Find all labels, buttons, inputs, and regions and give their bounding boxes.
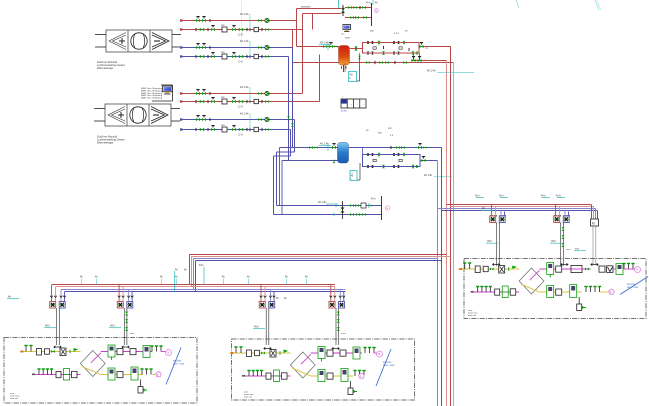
svg-text:xxxx xxx: xxxx xxx (244, 397, 253, 399)
svg-text:M: M (378, 353, 380, 356)
svg-text:40 b: 40 b (45, 324, 51, 328)
svg-text:40 1.4b: 40 1.4b (424, 174, 433, 177)
svg-text:xxxx - xxxx: xxxx - xxxx (173, 364, 185, 366)
svg-text:40 1.4b: 40 1.4b (240, 113, 249, 116)
svg-text:40 b: 40 b (366, 3, 371, 5)
svg-text:x x x: x x x (394, 32, 400, 35)
svg-text:40 b: 40 b (254, 325, 260, 329)
svg-text:C--K: C--K (238, 33, 243, 36)
svg-text:-: - (351, 102, 352, 106)
svg-text:Warmeterugw.: Warmeterugw. (97, 141, 114, 145)
svg-text:40 b: 40 b (475, 195, 480, 198)
svg-text:xx xx: xx xx (341, 110, 347, 113)
svg-text:-: - (357, 102, 358, 106)
svg-text:xxxx - xxxx: xxxx - xxxx (627, 287, 639, 289)
svg-text:M: M (636, 269, 638, 272)
svg-text:40 b: 40 b (487, 239, 493, 243)
svg-text:40 b: 40 b (541, 195, 546, 198)
svg-text:MSR: Vers. Regelung: MSR: Vers. Regelung (141, 97, 163, 100)
svg-text:40 b: 40 b (551, 239, 557, 243)
svg-text:L.: L. (351, 178, 353, 181)
svg-text:Warmeterugw.: Warmeterugw. (97, 66, 114, 70)
svg-text:-: - (363, 102, 364, 106)
svg-text:M: M (167, 352, 169, 355)
svg-text:40 1.4b: 40 1.4b (318, 201, 327, 204)
svg-text:40 b: 40 b (499, 195, 504, 198)
svg-text:xxxx xxx: xxxx xxx (10, 398, 19, 400)
svg-text:C--K: C--K (238, 105, 243, 108)
svg-text:40 b: 40 b (199, 264, 204, 267)
svg-text:L.: L. (350, 76, 352, 80)
svg-text:40 1.4b: 40 1.4b (427, 70, 436, 73)
svg-text:xxxx - xxxx: xxxx - xxxx (383, 365, 395, 367)
svg-text:M: M (386, 208, 388, 210)
svg-text:C--K: C--K (238, 133, 243, 136)
svg-text:C--K: C--K (238, 60, 243, 63)
svg-text:xxxx xxx: xxxx xxx (468, 315, 477, 317)
svg-text:40 1.4b: 40 1.4b (240, 86, 249, 89)
svg-text:xxxxxxx: xxxxxxx (173, 361, 182, 363)
svg-text:40 b: 40 b (110, 324, 116, 328)
svg-text:xxxxxxxx: xxxxxxxx (301, 6, 311, 9)
svg-text:xxxxxxx: xxxxxxx (627, 284, 636, 286)
svg-text:xxxx: xxxx (345, 37, 351, 40)
svg-text:M: M (592, 222, 595, 226)
svg-text:40 b: 40 b (556, 195, 561, 198)
svg-text:xxxxxxx: xxxxxxx (383, 362, 392, 364)
svg-text:40 b: 40 b (371, 199, 376, 201)
